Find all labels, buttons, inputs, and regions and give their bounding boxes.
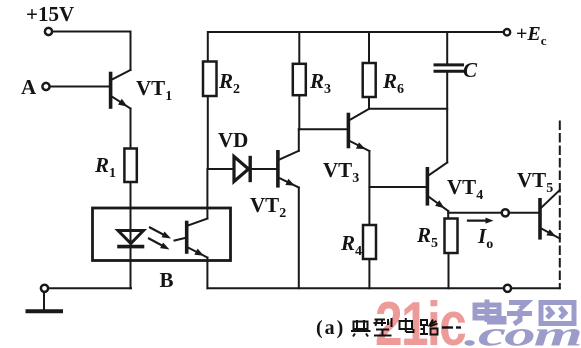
LED of optocoupler bbox=[118, 231, 144, 247]
watermark 电子网 (drawn strokes) bbox=[475, 300, 574, 325]
wire VD anode bbox=[208, 168, 234, 170]
optocoupler box B bbox=[93, 208, 231, 261]
wire +15V to VT1 collector bbox=[52, 32, 131, 71]
wire A to VT1 base bbox=[50, 86, 110, 88]
svg-text:R4: R4 bbox=[340, 231, 362, 259]
top rail +Ec bbox=[208, 32, 504, 62]
wire R6 top bbox=[368, 32, 370, 63]
svg-text:VT3: VT3 bbox=[323, 158, 359, 186]
电 (watermark) bbox=[475, 305, 499, 318]
svg-text:Io: Io bbox=[477, 224, 493, 252]
wire phototransistor collector bbox=[206, 169, 208, 219]
light arrow 2 bbox=[149, 239, 170, 250]
型 bbox=[375, 319, 386, 321]
resistor R1 bbox=[124, 149, 136, 183]
caption dash bbox=[442, 326, 453, 328]
wire VT4 emitter to output terminal bbox=[448, 212, 502, 214]
light arrow 1 bbox=[150, 228, 171, 239]
ground rail left bbox=[48, 287, 131, 289]
svg-text:21ic: 21ic bbox=[375, 289, 466, 348]
路 bbox=[421, 320, 427, 325]
wire R3 bottom to node bbox=[298, 95, 300, 129]
wire VT3 emitter to VT4 base bbox=[369, 186, 425, 188]
transistor VT4 bbox=[427, 163, 448, 212]
wire R5 to bottom rail bbox=[448, 253, 450, 288]
arrow Io bbox=[468, 218, 494, 224]
wire LED cathode to ground rail bbox=[130, 248, 132, 288]
watermark 21ic bbox=[375, 289, 466, 348]
resistor R3 bbox=[293, 64, 306, 95]
wire capacitor top bbox=[446, 32, 448, 64]
svg-text:VT2: VT2 bbox=[250, 193, 286, 221]
电 bbox=[400, 321, 413, 329]
wire VT3 emitter down bbox=[368, 151, 370, 225]
svg-text:R1: R1 bbox=[94, 153, 116, 181]
svg-text:VD: VD bbox=[218, 128, 248, 152]
caption 典型电路 (drawn strokes) bbox=[351, 318, 461, 337]
svg-text:R6: R6 bbox=[382, 69, 404, 97]
diode VD bbox=[234, 157, 250, 182]
svg-text:B: B bbox=[160, 268, 174, 292]
svg-text:+Ec: +Ec bbox=[516, 23, 547, 48]
wire to ground bbox=[43, 292, 45, 310]
wire node to VT3 base bbox=[299, 128, 347, 130]
典 bbox=[356, 320, 358, 329]
svg-text:(a): (a) bbox=[316, 317, 345, 339]
wire VT4 emitter node to R5 bbox=[447, 211, 449, 219]
resistor R2 bbox=[203, 62, 217, 97]
terminal +Ec bbox=[504, 29, 510, 35]
watermark .com bbox=[464, 315, 581, 348]
svg-text:R2: R2 bbox=[218, 69, 240, 97]
子 (watermark) bbox=[509, 303, 527, 310]
svg-text:R3: R3 bbox=[309, 69, 331, 97]
wire VT2 collector up to node bbox=[298, 129, 300, 151]
wire output terminal to VT5 base bbox=[509, 212, 539, 214]
svg-text:VT1: VT1 bbox=[136, 76, 172, 104]
ground terminal bbox=[41, 285, 48, 292]
resistor R6 bbox=[363, 63, 376, 97]
wire R3 top bbox=[298, 32, 300, 64]
resistor R4 bbox=[363, 225, 376, 259]
terminal output bbox=[502, 209, 509, 216]
ground bbox=[28, 309, 62, 313]
transistor VT1 bbox=[111, 70, 131, 109]
wire R6 bottom to VT3 collector node bbox=[368, 97, 370, 109]
svg-text:+15V: +15V bbox=[26, 2, 74, 26]
wire capacitor bottom to VT4 collector bbox=[446, 73, 448, 163]
terminal +15V bbox=[45, 28, 52, 35]
transistor VT2 bbox=[278, 151, 299, 188]
bottom rail bbox=[207, 287, 559, 289]
svg-text:VT5: VT5 bbox=[517, 168, 553, 196]
网 (watermark) bbox=[541, 303, 574, 324]
resistor R5 bbox=[445, 219, 458, 254]
transistor VT3 bbox=[348, 109, 369, 151]
svg-text:R5: R5 bbox=[416, 223, 438, 251]
wire R2 to VD node bbox=[207, 96, 209, 169]
terminal bottom bbox=[504, 285, 511, 292]
phototransistor of optocoupler bbox=[175, 219, 208, 258]
svg-text:C: C bbox=[463, 58, 478, 82]
wire VD cathode to VT2 base bbox=[250, 168, 276, 170]
wire VT1 emitter to R1 bbox=[130, 109, 132, 149]
wire VT2 emitter to bottom rail bbox=[298, 188, 300, 289]
wire phototransistor emitter to bottom rail bbox=[206, 258, 208, 289]
transistor VT5 bbox=[540, 190, 560, 239]
wire R1 to optocoupler LED bbox=[130, 182, 132, 246]
svg-text:A: A bbox=[21, 75, 37, 99]
svg-text:VT4: VT4 bbox=[447, 175, 483, 203]
dashed boundary line bbox=[559, 122, 561, 289]
wire R4 to bottom rail bbox=[368, 259, 370, 288]
capacitor C bbox=[435, 65, 463, 71]
wire VT3 collector node to capacitor node bbox=[369, 108, 447, 110]
terminal A bbox=[42, 83, 49, 90]
